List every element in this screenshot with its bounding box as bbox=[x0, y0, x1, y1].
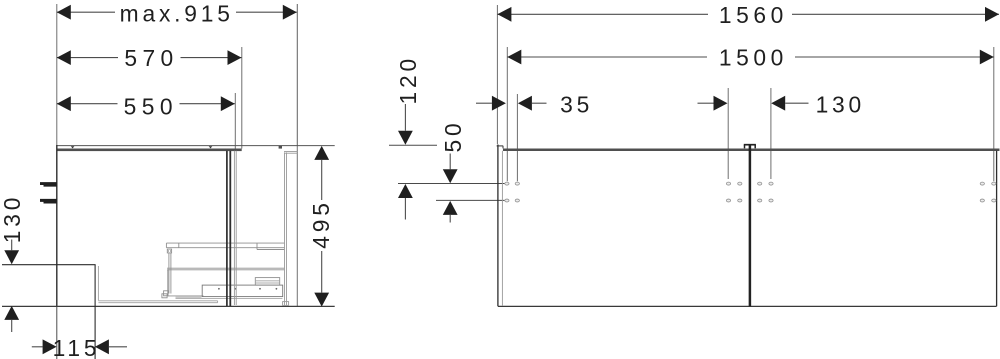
fixing tick 1 bbox=[71, 146, 75, 148]
wall bracket upper bbox=[40, 182, 57, 187]
svg-text:495: 495 bbox=[308, 199, 334, 248]
slide rail box with screws bbox=[202, 285, 283, 297]
back edge extension down to 115 dimension bbox=[56, 307, 58, 359]
console slab (side view dark band) bbox=[57, 149, 242, 152]
cabinet back edge bbox=[56, 145, 58, 307]
drawer clip box bbox=[167, 249, 171, 253]
extension line: wall / back edge top bbox=[56, 4, 58, 145]
notch inner gray vertical bbox=[97, 266, 99, 301]
lower drawer box bbox=[167, 270, 169, 296]
extension line: 550 bbox=[234, 93, 236, 151]
dimension 550 bbox=[57, 93, 235, 119]
extension line: center-left hole column bbox=[727, 88, 729, 179]
svg-text:550: 550 bbox=[124, 93, 178, 119]
svg-text:50: 50 bbox=[440, 120, 466, 153]
cabinet left edge bbox=[497, 145, 499, 307]
extension line: 570 bbox=[241, 47, 243, 149]
drawer rail top bbox=[166, 243, 284, 249]
plinth recess gray lines bbox=[98, 300, 217, 302]
dimension 1560 bbox=[497, 2, 999, 28]
extension line: center-right hole column bbox=[770, 88, 772, 179]
extension line: console leg outer edge (continues to bottom) bbox=[296, 146, 298, 307]
cabinet front dark double line bbox=[226, 151, 228, 306]
fixing tick 2 bbox=[209, 146, 213, 148]
dimension 115 bbox=[32, 335, 127, 359]
bottom notch horizontal line bbox=[2, 264, 96, 266]
svg-text:570: 570 bbox=[124, 45, 178, 71]
svg-text:120: 120 bbox=[395, 55, 421, 104]
front inner gray pair bbox=[233, 151, 235, 305]
console leg panel bbox=[284, 152, 286, 305]
slide bracket bottom left bbox=[164, 291, 168, 296]
center joint bracket bbox=[744, 144, 756, 146]
bottom notch vertical + 115 extension bbox=[94, 265, 96, 359]
dimension 120 (rotated) bbox=[389, 55, 437, 219]
wall bracket lower bbox=[40, 199, 57, 204]
dimension max.915 bbox=[57, 0, 297, 26]
extension line: 1500 right bbox=[993, 47, 995, 181]
dimension 130 (left, rotated) bbox=[0, 194, 25, 332]
console top line with 495 extension bbox=[57, 145, 335, 147]
dimension 570 bbox=[57, 45, 242, 71]
dimension 50 (rotated) bbox=[398, 120, 504, 223]
dimension 130 (right) bbox=[698, 91, 866, 117]
extension line: max.915 right bbox=[296, 4, 298, 146]
dimension 495 (rotated) bbox=[308, 146, 334, 307]
cabinet bottom line bbox=[498, 305, 997, 307]
extension line: 35 hole column bbox=[516, 94, 518, 181]
cabinet bottom line bbox=[2, 305, 335, 307]
console left end lip bbox=[497, 145, 504, 147]
center joint dark line bbox=[749, 144, 752, 306]
drill holes bbox=[505, 182, 996, 202]
svg-text:1500: 1500 bbox=[719, 44, 788, 70]
console slab (front view) bbox=[503, 149, 1000, 152]
extension line: 1500 left / hole column bbox=[506, 47, 508, 181]
svg-text:115: 115 bbox=[53, 335, 101, 359]
siphon box bbox=[255, 278, 279, 286]
drawer bottom gray band bbox=[176, 296, 202, 298]
svg-text:max.915: max.915 bbox=[120, 0, 234, 26]
svg-text:130: 130 bbox=[0, 194, 25, 243]
extension line: 1560 left bbox=[496, 5, 498, 144]
console front end step bbox=[279, 146, 282, 149]
drawer back wall bbox=[168, 253, 170, 294]
svg-text:1560: 1560 bbox=[719, 2, 788, 28]
drawer mid lines bbox=[167, 267, 285, 269]
hole row reference line 1 bbox=[398, 183, 504, 185]
console leg foot bbox=[283, 302, 289, 306]
dimension 35 bbox=[476, 91, 593, 117]
svg-text:130: 130 bbox=[816, 91, 865, 117]
dimension 1500 bbox=[507, 44, 994, 70]
svg-text:35: 35 bbox=[560, 91, 593, 117]
cabinet right edge bbox=[996, 151, 998, 307]
hole row reference line 2 bbox=[436, 199, 504, 201]
